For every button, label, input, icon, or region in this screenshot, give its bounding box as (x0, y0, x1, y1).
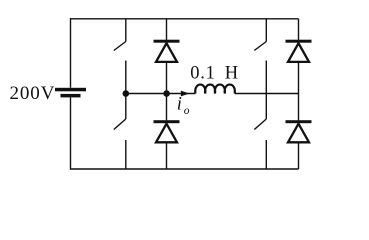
switch S2 (bottom-left) (114, 94, 126, 170)
node B (left diode mid junction) (163, 90, 170, 97)
wire mid to inductor (167, 93, 196, 95)
diode D1 (top-left) (154, 19, 180, 94)
diode D2 (bottom-left) (154, 94, 180, 170)
wire inductor to right leg (235, 93, 299, 95)
wire left rail lower (70, 98, 72, 170)
svg-text:o: o (184, 105, 190, 117)
battery source 200V (55, 88, 86, 98)
node A (left switch mid junction) (123, 90, 130, 97)
diode D3 (top-right) (286, 19, 312, 94)
svg-text:0.1 H: 0.1 H (190, 63, 239, 83)
svg-text:200V: 200V (10, 83, 56, 104)
inductor L 0.1 H (195, 85, 235, 94)
switch S1 (top-left) (114, 19, 126, 94)
wire bottom rail (71, 168, 299, 170)
wire left rail upper (70, 18, 72, 88)
wire top rail (71, 18, 299, 20)
diode D4 (bottom-right) (286, 94, 312, 170)
svg-text:i: i (177, 94, 182, 114)
switch S3 (top-right) (254, 19, 266, 94)
current arrow i_o (181, 91, 190, 97)
switch S4 (bottom-right) (254, 94, 266, 170)
wire mid left (node to node) (126, 93, 167, 95)
